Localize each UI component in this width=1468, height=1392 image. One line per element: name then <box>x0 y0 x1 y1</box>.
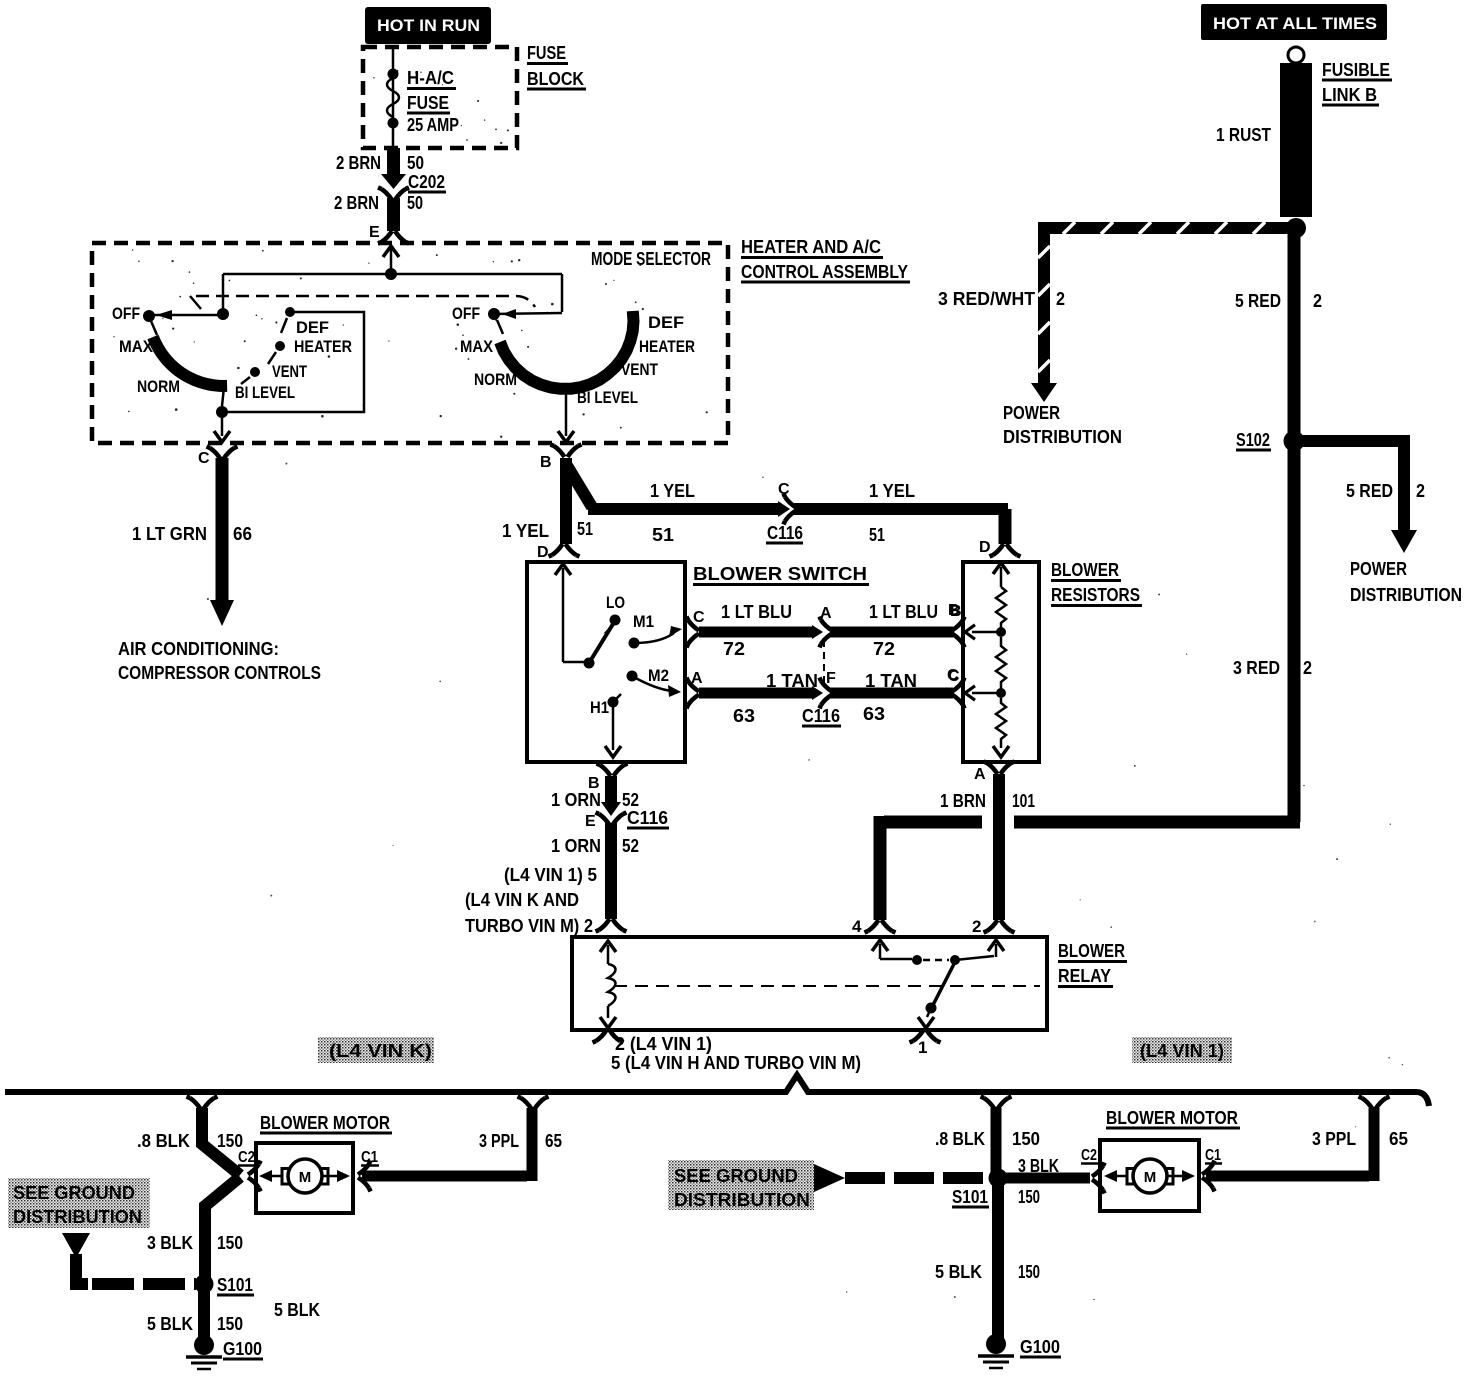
svg-text:1 ORN: 1 ORN <box>551 836 601 856</box>
svg-text:NORM: NORM <box>137 377 180 396</box>
svg-text:DISTRIBUTION: DISTRIBUTION <box>13 1207 142 1227</box>
svg-text:C116: C116 <box>802 706 840 726</box>
svg-text:FUSE: FUSE <box>407 93 449 113</box>
svg-text:65: 65 <box>1389 1129 1408 1149</box>
svg-text:2 BRN: 2 BRN <box>334 193 379 213</box>
svg-text:E: E <box>585 813 596 830</box>
svg-text:1 BRN: 1 BRN <box>940 791 986 811</box>
svg-text:2 (L4 VIN 1): 2 (L4 VIN 1) <box>615 1034 712 1054</box>
svg-text:51: 51 <box>652 525 674 545</box>
svg-text:5 BLK: 5 BLK <box>147 1314 193 1334</box>
svg-text:G100: G100 <box>1020 1337 1060 1357</box>
svg-text:1 YEL: 1 YEL <box>502 521 549 541</box>
svg-text:5 RED: 5 RED <box>1235 291 1281 311</box>
svg-text:MODE SELECTOR: MODE SELECTOR <box>591 249 711 269</box>
svg-text:C: C <box>947 667 959 684</box>
svg-text:72: 72 <box>873 639 895 659</box>
svg-text:66: 66 <box>233 524 252 544</box>
svg-text:D: D <box>537 544 549 561</box>
svg-text:FUSIBLE: FUSIBLE <box>1322 60 1390 80</box>
svg-text:150: 150 <box>217 1314 243 1334</box>
svg-text:OFF: OFF <box>452 304 480 323</box>
svg-text:AIR CONDITIONING:: AIR CONDITIONING: <box>118 639 279 659</box>
svg-text:.8 BLK: .8 BLK <box>137 1131 190 1151</box>
svg-text:C2: C2 <box>1081 1147 1097 1164</box>
svg-text:1 YEL: 1 YEL <box>869 481 915 501</box>
svg-text:RESISTORS: RESISTORS <box>1051 585 1140 605</box>
svg-text:51: 51 <box>869 525 885 545</box>
svg-text:BLOWER: BLOWER <box>1051 560 1119 580</box>
svg-text:3 PPL: 3 PPL <box>479 1131 519 1151</box>
svg-text:2: 2 <box>972 917 981 936</box>
svg-text:C116: C116 <box>627 808 668 828</box>
svg-text:H-A/C: H-A/C <box>407 68 454 88</box>
svg-text:72: 72 <box>723 639 745 659</box>
svg-text:HOT AT ALL TIMES: HOT AT ALL TIMES <box>1213 14 1377 33</box>
svg-text:VENT: VENT <box>621 360 658 379</box>
svg-text:HOT IN RUN: HOT IN RUN <box>377 16 480 35</box>
svg-text:25 AMP: 25 AMP <box>407 115 459 135</box>
svg-text:B: B <box>540 454 552 471</box>
svg-text:DISTRIBUTION: DISTRIBUTION <box>674 1190 810 1210</box>
svg-text:52: 52 <box>622 836 639 856</box>
svg-text:LO: LO <box>606 593 625 612</box>
svg-text:M1: M1 <box>633 612 654 631</box>
svg-text:A: A <box>820 605 832 622</box>
svg-text:M2: M2 <box>648 666 669 685</box>
svg-text:(L4 VIN 1): (L4 VIN 1) <box>1140 1041 1224 1061</box>
svg-text:TURBO VIN M) 2: TURBO VIN M) 2 <box>465 916 593 936</box>
svg-text:5 (L4 VIN H AND TURBO VIN M): 5 (L4 VIN H AND TURBO VIN M) <box>611 1053 861 1073</box>
svg-text:3 BLK: 3 BLK <box>147 1233 193 1253</box>
svg-text:1 LT BLU: 1 LT BLU <box>869 602 938 622</box>
svg-text:1 YEL: 1 YEL <box>650 481 695 501</box>
svg-text:C: C <box>198 450 210 467</box>
svg-text:MAX: MAX <box>119 337 154 356</box>
svg-text:150: 150 <box>1018 1262 1040 1282</box>
svg-text:BLOWER SWITCH: BLOWER SWITCH <box>693 564 867 584</box>
svg-text:S101: S101 <box>217 1275 253 1295</box>
svg-text:1 LT GRN: 1 LT GRN <box>132 524 207 544</box>
svg-text:C2: C2 <box>238 1149 255 1166</box>
svg-text:D: D <box>979 539 991 556</box>
svg-text:1: 1 <box>918 1038 927 1057</box>
svg-text:DISTRIBUTION: DISTRIBUTION <box>1003 427 1122 447</box>
svg-text:HEATER: HEATER <box>294 337 352 356</box>
svg-text:DEF: DEF <box>296 318 329 337</box>
svg-text:C: C <box>693 609 705 626</box>
svg-text:BLOCK: BLOCK <box>527 69 584 89</box>
svg-text:5 BLK: 5 BLK <box>935 1262 982 1282</box>
svg-text:HEATER AND A/C: HEATER AND A/C <box>741 237 881 257</box>
svg-text:50: 50 <box>407 193 423 213</box>
svg-text:F: F <box>826 670 836 687</box>
svg-text:2: 2 <box>1056 289 1065 309</box>
svg-text:MAX: MAX <box>460 337 494 356</box>
svg-text:S102: S102 <box>1236 430 1270 450</box>
svg-text:M: M <box>1144 1169 1157 1186</box>
svg-text:51: 51 <box>577 519 593 539</box>
svg-text:BI LEVEL: BI LEVEL <box>577 388 638 407</box>
svg-text:4: 4 <box>852 917 862 936</box>
svg-text:HEATER: HEATER <box>639 337 695 356</box>
svg-text:150: 150 <box>217 1233 243 1253</box>
svg-text:A: A <box>691 670 703 687</box>
svg-text:2: 2 <box>1313 291 1322 311</box>
svg-text:150: 150 <box>1018 1187 1040 1207</box>
svg-text:BI LEVEL: BI LEVEL <box>235 383 295 402</box>
svg-text:3 RED/WHT: 3 RED/WHT <box>938 289 1035 309</box>
svg-text:BLOWER MOTOR: BLOWER MOTOR <box>1106 1108 1238 1128</box>
svg-text:CONTROL ASSEMBLY: CONTROL ASSEMBLY <box>741 262 908 282</box>
svg-text:E: E <box>369 224 380 241</box>
svg-text:RELAY: RELAY <box>1058 966 1111 986</box>
svg-text:63: 63 <box>733 706 755 726</box>
svg-text:OFF: OFF <box>112 304 140 323</box>
svg-text:A: A <box>974 766 986 783</box>
svg-text:2 BRN: 2 BRN <box>336 153 381 173</box>
svg-text:65: 65 <box>545 1131 562 1151</box>
svg-text:SEE GROUND: SEE GROUND <box>13 1183 135 1203</box>
svg-text:DISTRIBUTION: DISTRIBUTION <box>1350 585 1462 605</box>
svg-text:FUSE: FUSE <box>527 43 566 63</box>
svg-text:G100: G100 <box>223 1339 262 1359</box>
svg-text:BLOWER MOTOR: BLOWER MOTOR <box>260 1113 390 1133</box>
svg-text:NORM: NORM <box>474 370 517 389</box>
svg-text:POWER: POWER <box>1350 559 1407 579</box>
svg-text:150: 150 <box>217 1131 243 1151</box>
svg-text:63: 63 <box>863 704 885 724</box>
svg-text:2: 2 <box>1303 658 1312 678</box>
svg-text:.8 BLK: .8 BLK <box>935 1129 985 1149</box>
svg-text:50: 50 <box>407 153 424 173</box>
svg-text:(L4 VIN 1) 5: (L4 VIN 1) 5 <box>504 865 597 885</box>
svg-text:3 RED: 3 RED <box>1233 658 1280 678</box>
svg-text:S101: S101 <box>952 1187 988 1207</box>
svg-text:1 ORN: 1 ORN <box>551 790 601 810</box>
svg-text:1 LT BLU: 1 LT BLU <box>721 602 792 622</box>
svg-text:BLOWER: BLOWER <box>1058 941 1125 961</box>
svg-text:1 RUST: 1 RUST <box>1216 125 1271 145</box>
svg-text:2: 2 <box>1416 481 1425 501</box>
svg-text:101: 101 <box>1012 791 1035 811</box>
svg-text:DEF: DEF <box>648 313 684 332</box>
svg-text:C202: C202 <box>408 172 445 192</box>
svg-text:VENT: VENT <box>272 362 307 381</box>
svg-text:LINK B: LINK B <box>1322 85 1377 105</box>
svg-text:1 TAN: 1 TAN <box>766 671 818 691</box>
svg-text:52: 52 <box>622 790 639 810</box>
svg-text:POWER: POWER <box>1003 403 1060 423</box>
svg-text:150: 150 <box>1012 1129 1040 1149</box>
svg-text:1 TAN: 1 TAN <box>865 671 917 691</box>
svg-text:5 BLK: 5 BLK <box>274 1300 320 1320</box>
svg-text:COMPRESSOR CONTROLS: COMPRESSOR CONTROLS <box>118 663 321 683</box>
svg-text:M: M <box>299 1169 312 1186</box>
svg-text:C116: C116 <box>767 523 803 543</box>
svg-text:3 PPL: 3 PPL <box>1312 1129 1356 1149</box>
svg-text:SEE GROUND: SEE GROUND <box>674 1166 798 1186</box>
svg-text:B: B <box>948 602 960 619</box>
svg-text:C: C <box>778 481 790 498</box>
svg-text:(L4 VIN K): (L4 VIN K) <box>329 1041 432 1061</box>
svg-text:H1: H1 <box>590 698 609 717</box>
svg-text:5 RED: 5 RED <box>1346 481 1393 501</box>
svg-text:(L4 VIN K AND: (L4 VIN K AND <box>465 890 579 910</box>
